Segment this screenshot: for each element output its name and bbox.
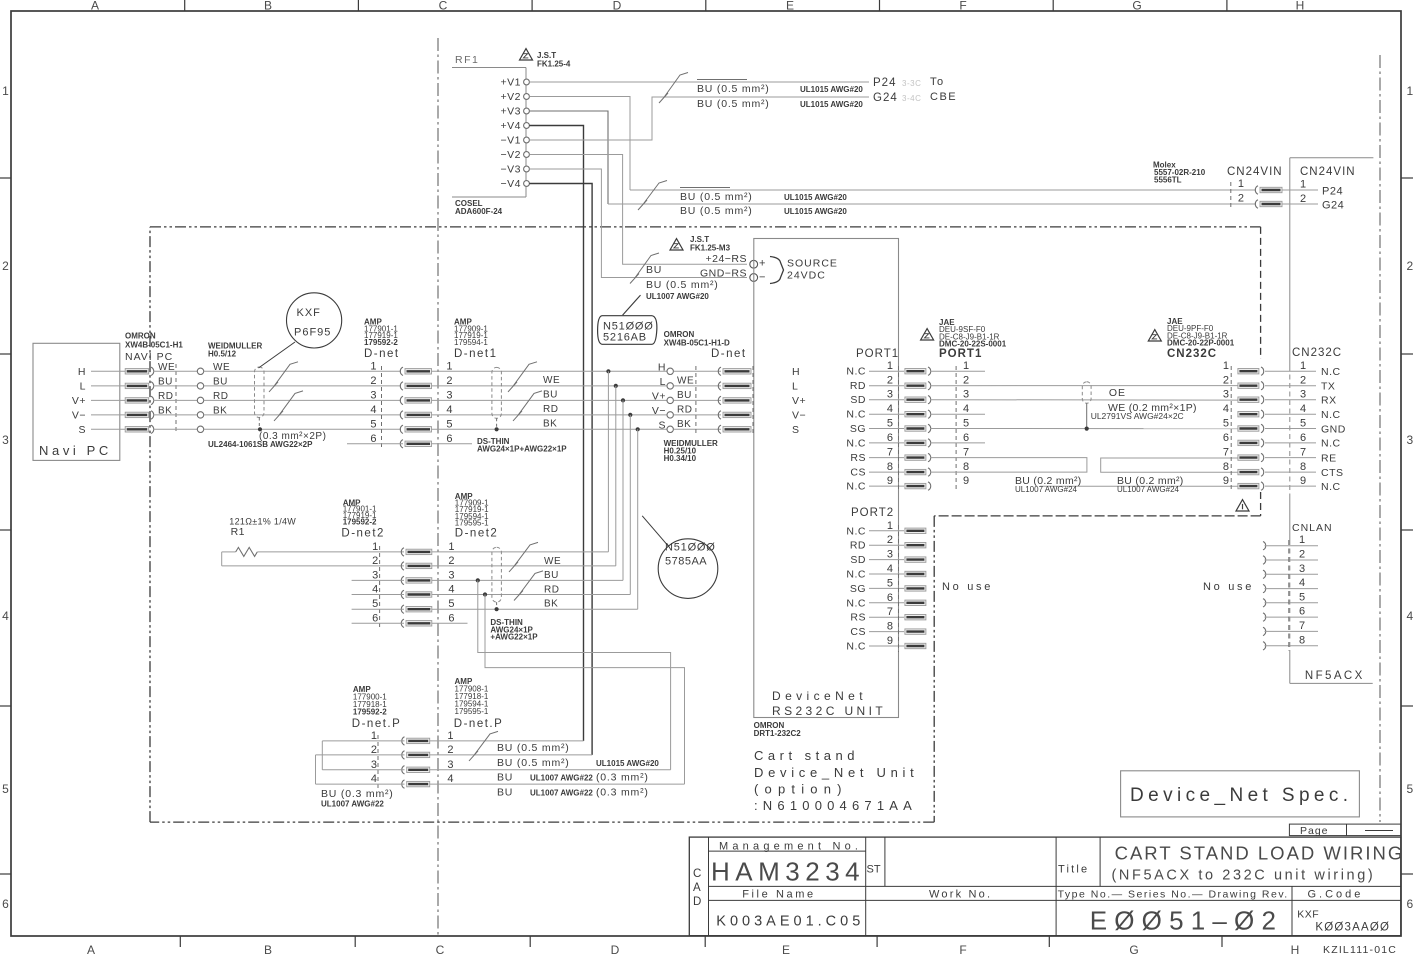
svg-text:5: 5 bbox=[1299, 591, 1305, 603]
CN24VIN pin 1 contact bbox=[1255, 186, 1282, 194]
svg-text:3: 3 bbox=[1407, 433, 1413, 447]
label Cart stand Device_Net Unit (option) N610004671AA bbox=[754, 748, 918, 813]
svg-text:No use: No use bbox=[942, 581, 993, 593]
svg-text:4: 4 bbox=[371, 773, 377, 785]
svg-text:3: 3 bbox=[372, 569, 378, 581]
jumper RS-CS (PORT1 side) bbox=[930, 458, 1087, 473]
svg-text:1: 1 bbox=[446, 360, 452, 372]
jumper D-net.P pin2-pin4 bbox=[316, 755, 405, 784]
svg-text:SD: SD bbox=[850, 554, 866, 566]
svg-text:3: 3 bbox=[1223, 389, 1229, 401]
svg-text:CS: CS bbox=[850, 467, 866, 479]
svg-text:3: 3 bbox=[447, 759, 453, 771]
svg-text:CBE: CBE bbox=[930, 91, 957, 103]
svg-text:N.C: N.C bbox=[846, 437, 866, 449]
svg-text:RF1: RF1 bbox=[455, 54, 479, 66]
svg-text:1: 1 bbox=[1238, 178, 1244, 190]
svg-text:R1: R1 bbox=[231, 526, 245, 538]
svg-text:3: 3 bbox=[370, 389, 376, 401]
svg-text:D-net2: D-net2 bbox=[455, 528, 499, 540]
svg-text:6: 6 bbox=[370, 433, 376, 445]
svg-text:D: D bbox=[613, 0, 622, 13]
svg-text:N.C: N.C bbox=[846, 366, 866, 378]
svg-text:UL1007 AWG#22: UL1007 AWG#22 bbox=[530, 774, 593, 783]
svg-text:BU: BU bbox=[497, 787, 513, 799]
svg-text:V+: V+ bbox=[652, 390, 666, 402]
svg-text:8: 8 bbox=[1223, 461, 1229, 473]
svg-text:4: 4 bbox=[372, 584, 378, 596]
svg-text:SD: SD bbox=[850, 394, 866, 406]
svg-text:KXF: KXF bbox=[1297, 909, 1319, 921]
node P24 to CBE bbox=[873, 76, 945, 89]
svg-text:179592-2: 179592-2 bbox=[353, 708, 387, 717]
svg-text:1: 1 bbox=[963, 360, 969, 372]
svg-text:1: 1 bbox=[448, 541, 454, 553]
connector D-net2 (AMP 177901-1/177919-1/179592-2) bbox=[341, 498, 431, 629]
svg-text:H0.34/10: H0.34/10 bbox=[664, 454, 697, 463]
svg-text:+: + bbox=[759, 258, 765, 270]
svg-text:2: 2 bbox=[2, 259, 9, 273]
connector CN24VIN (Molex) bbox=[1153, 161, 1283, 211]
svg-text:SG: SG bbox=[850, 583, 866, 595]
svg-text:2: 2 bbox=[447, 744, 453, 756]
svg-text:KØØ3AAØØ: KØØ3AAØØ bbox=[1315, 922, 1390, 934]
label DS-THIN AWG24x1P+AWG22x1P bbox=[477, 437, 567, 454]
wire +V4 down to D-net.P pin1 bbox=[529, 126, 583, 741]
svg-text:H0.5/12: H0.5/12 bbox=[208, 350, 237, 359]
svg-text:HAM3234: HAM3234 bbox=[711, 857, 865, 887]
svg-text:5: 5 bbox=[887, 418, 893, 430]
svg-text:(0.3 mm²): (0.3 mm²) bbox=[596, 772, 649, 784]
svg-text:4: 4 bbox=[2, 609, 9, 623]
warning triangle JAE DEU-9SF-F0 PORT1 bbox=[921, 318, 1007, 360]
svg-text:V+: V+ bbox=[792, 395, 806, 407]
warning triangle (232C cable) bbox=[1236, 500, 1249, 511]
svg-text:CN232C: CN232C bbox=[1167, 348, 1217, 360]
label BU (0.5mm2) UL1015 AWG#20 pin2 bbox=[497, 757, 659, 769]
svg-text:RD: RD bbox=[677, 404, 692, 415]
svg-text:3: 3 bbox=[887, 549, 893, 561]
svg-text:6: 6 bbox=[1407, 897, 1413, 911]
svg-text:+24−RS: +24−RS bbox=[705, 253, 747, 265]
wire +V2 down to CN24VIN P24 bbox=[529, 97, 630, 191]
svg-text:+V4: +V4 bbox=[501, 120, 521, 132]
label N51000 5216AB bbox=[598, 295, 657, 344]
svg-text:4: 4 bbox=[1407, 609, 1413, 623]
label WE (0.2mm2x1P) UL2791VS AWG#24x2C bbox=[1091, 402, 1197, 421]
svg-text:D-net2: D-net2 bbox=[341, 528, 385, 540]
svg-text:5: 5 bbox=[448, 598, 454, 610]
svg-text:D-net.P: D-net.P bbox=[352, 718, 402, 730]
svg-text:BU (0.5 mm²): BU (0.5 mm²) bbox=[697, 83, 770, 95]
svg-text:N.C: N.C bbox=[1321, 366, 1341, 378]
svg-text:3: 3 bbox=[448, 569, 454, 581]
svg-text:UL1007 AWG#22: UL1007 AWG#22 bbox=[530, 789, 593, 798]
svg-text:ADA600F-24: ADA600F-24 bbox=[455, 207, 503, 216]
svg-text:L: L bbox=[80, 381, 86, 393]
svg-text:4: 4 bbox=[370, 404, 376, 416]
svg-text:5: 5 bbox=[2, 782, 9, 796]
svg-text:5: 5 bbox=[1407, 782, 1413, 796]
svg-text:PORT1: PORT1 bbox=[939, 348, 982, 360]
svg-text:2: 2 bbox=[887, 375, 893, 387]
wire CN232C pin9 stub bbox=[1040, 485, 1238, 487]
svg-text:N.C: N.C bbox=[846, 525, 866, 537]
svg-text:SOURCE: SOURCE bbox=[787, 258, 838, 270]
svg-text:−V4: −V4 bbox=[501, 178, 521, 190]
svg-text:−V2: −V2 bbox=[501, 149, 521, 161]
title block Page cell bbox=[1289, 824, 1401, 837]
svg-text:CART STAND LOAD WIRING: CART STAND LOAD WIRING bbox=[1115, 843, 1405, 864]
connector PORT1 (unit side) bbox=[846, 348, 930, 493]
svg-text:KZIL111-01C: KZIL111-01C bbox=[1323, 944, 1397, 956]
svg-text:179594-1: 179594-1 bbox=[454, 338, 488, 347]
cable sheath DS-THIN (top) bbox=[492, 367, 502, 431]
svg-text:BU: BU bbox=[646, 264, 662, 276]
svg-text:7: 7 bbox=[1300, 447, 1306, 459]
svg-text:6: 6 bbox=[448, 612, 454, 624]
svg-text:2: 2 bbox=[371, 744, 377, 756]
svg-text:N.C: N.C bbox=[1321, 438, 1341, 450]
wire CN24VIN pin2 feed bbox=[608, 203, 1256, 205]
svg-text:FK1.25-M3: FK1.25-M3 bbox=[690, 244, 731, 253]
svg-text:B: B bbox=[264, 943, 272, 957]
svg-text:H: H bbox=[78, 366, 86, 378]
svg-text:UL1015 AWG#20: UL1015 AWG#20 bbox=[596, 759, 659, 768]
svg-text:DRT1-232C2: DRT1-232C2 bbox=[754, 729, 802, 738]
svg-text:ST: ST bbox=[867, 864, 881, 876]
svg-text:1: 1 bbox=[887, 360, 893, 372]
connector D-net (AMP 177901-1/177919-1/179592-2) bbox=[364, 318, 432, 450]
label BU (0.5mm2) UL1015 AWG#20 (P24) bbox=[697, 80, 863, 96]
svg-text:3: 3 bbox=[1300, 389, 1306, 401]
svg-text:7: 7 bbox=[1223, 447, 1229, 459]
svg-text:SG: SG bbox=[850, 423, 866, 435]
svg-text:5216AB: 5216AB bbox=[603, 332, 647, 344]
wires WEIDMULLER to D-net bbox=[204, 371, 401, 429]
label BU (0.2mm2) UL1007 AWG#24 (left) bbox=[1015, 475, 1082, 494]
label CAD bbox=[693, 868, 701, 908]
column C dash-dot line bbox=[437, 38, 439, 936]
svg-text:Cart stand: Cart stand bbox=[754, 748, 859, 763]
connector PORT2 bbox=[846, 507, 925, 653]
svg-text:BU (0.5 mm²): BU (0.5 mm²) bbox=[680, 205, 753, 217]
svg-text:2: 2 bbox=[963, 375, 969, 387]
svg-text:4: 4 bbox=[887, 563, 893, 575]
svg-text:(NF5ACX to 232C unit wiring): (NF5ACX to 232C unit wiring) bbox=[1112, 868, 1376, 884]
value KXF K003AA00 bbox=[1297, 909, 1390, 934]
label BU (0.5mm2) UL1015 AWG#20 (feed2) bbox=[680, 205, 847, 217]
svg-text:N.C: N.C bbox=[846, 597, 866, 609]
svg-text:G24: G24 bbox=[873, 92, 898, 104]
svg-text:D-net: D-net bbox=[364, 348, 400, 360]
label BU (0.2mm2) UL1007 AWG#24 (right) bbox=[1117, 475, 1184, 494]
cable mark on CN24VIN feed wires bbox=[638, 181, 667, 211]
svg-text:G: G bbox=[1129, 943, 1138, 957]
svg-text:File Name: File Name bbox=[742, 889, 816, 901]
svg-text:6: 6 bbox=[2, 897, 9, 911]
svg-text:CS: CS bbox=[850, 626, 866, 638]
node G24 to CBE bbox=[873, 91, 957, 104]
svg-text:5: 5 bbox=[370, 418, 376, 430]
wire -V4 down to D-net.P pin2 bbox=[529, 184, 592, 755]
svg-text:2: 2 bbox=[1300, 193, 1306, 205]
svg-text:BU (0.5 mm²): BU (0.5 mm²) bbox=[680, 191, 753, 203]
svg-text:2: 2 bbox=[887, 534, 893, 546]
box Device_Net Spec. bbox=[1121, 771, 1360, 817]
wire colour labels WE BU RD BK (D-net cable) bbox=[543, 375, 560, 430]
svg-text:9: 9 bbox=[963, 475, 969, 487]
svg-text:N.C: N.C bbox=[846, 481, 866, 493]
svg-text:6: 6 bbox=[446, 433, 452, 445]
svg-text:GND−RS: GND−RS bbox=[700, 268, 747, 280]
twisted pair sheath OE/WE bbox=[1082, 382, 1091, 431]
svg-text:D-net1: D-net1 bbox=[454, 348, 498, 360]
svg-text:Type No.— Series No.— Drawing: Type No.— Series No.— Drawing Rev. bbox=[1058, 889, 1289, 901]
svg-text:4: 4 bbox=[1223, 403, 1229, 415]
svg-text:UL1015 AWG#20: UL1015 AWG#20 bbox=[784, 193, 847, 202]
svg-text:BK: BK bbox=[543, 418, 557, 429]
svg-text:+V3: +V3 bbox=[501, 106, 521, 118]
svg-text:H: H bbox=[658, 361, 666, 373]
svg-text:XW4B-05C1-H1-D: XW4B-05C1-H1-D bbox=[664, 339, 730, 348]
svg-text:To: To bbox=[930, 76, 945, 88]
svg-text:2: 2 bbox=[372, 555, 378, 567]
svg-text:2: 2 bbox=[370, 375, 376, 387]
tap D-net2 pin3 to D-net.P pin3 bbox=[476, 578, 671, 769]
svg-text:N.C: N.C bbox=[846, 569, 866, 581]
connector D-net.P (AMP 177900-1/177918-1/179592-2) bbox=[352, 685, 430, 790]
svg-text:2: 2 bbox=[1300, 375, 1306, 387]
svg-text:N.C: N.C bbox=[1321, 481, 1341, 493]
svg-text:V−: V− bbox=[72, 410, 86, 422]
svg-text:4: 4 bbox=[1300, 403, 1306, 415]
svg-text:5: 5 bbox=[963, 418, 969, 430]
cable mark on source wires bbox=[630, 253, 659, 284]
svg-text:2: 2 bbox=[1223, 375, 1229, 387]
svg-text:2: 2 bbox=[446, 375, 452, 387]
wire -V2 down to +24-RS bbox=[529, 155, 747, 265]
cable mark (D-net.P cable) bbox=[469, 731, 498, 761]
terminal +24-RS bbox=[705, 253, 765, 270]
label BU UL1007 AWG#22 (0.3mm2) pin3 bbox=[497, 772, 649, 784]
resistor R1 121ohm bbox=[222, 517, 404, 566]
svg-text:1: 1 bbox=[372, 541, 378, 553]
svg-text:N.C: N.C bbox=[846, 409, 866, 421]
svg-text:PORT1: PORT1 bbox=[856, 348, 899, 360]
wire RD to TX bbox=[930, 385, 1238, 387]
svg-text:A: A bbox=[91, 0, 99, 13]
svg-text:8: 8 bbox=[1300, 461, 1306, 473]
svg-text:UL2464-1061SB AWG22×2P: UL2464-1061SB AWG22×2P bbox=[208, 440, 313, 449]
svg-text:F: F bbox=[959, 943, 966, 957]
svg-text:BU: BU bbox=[497, 772, 513, 784]
svg-text:3: 3 bbox=[371, 759, 377, 771]
svg-text:1: 1 bbox=[1407, 84, 1413, 98]
svg-text:C: C bbox=[693, 868, 701, 880]
svg-text:RD: RD bbox=[850, 540, 866, 552]
warning triangle JAE DEU-9PF-F0 CN232C bbox=[1148, 317, 1234, 360]
svg-text:S: S bbox=[78, 424, 86, 436]
svg-text:BU (0.5 mm²): BU (0.5 mm²) bbox=[497, 757, 570, 769]
svg-text:Device_Net Spec.: Device_Net Spec. bbox=[1130, 785, 1352, 806]
label BU / BU (0.5mm2) UL1007 AWG#20 bbox=[646, 264, 719, 301]
svg-text:−V1: −V1 bbox=[501, 135, 521, 147]
title CART STAND LOAD WIRING bbox=[1112, 843, 1405, 884]
SOURCE 24VDC brace and label bbox=[770, 257, 838, 284]
svg-text:Device_Net Unit: Device_Net Unit bbox=[754, 765, 918, 780]
svg-text:2: 2 bbox=[448, 555, 454, 567]
svg-text:NF5ACX: NF5ACX bbox=[1305, 670, 1365, 682]
svg-text:1: 1 bbox=[370, 360, 376, 372]
svg-text:(0.3 mm²): (0.3 mm²) bbox=[596, 787, 649, 799]
svg-text:L: L bbox=[792, 381, 798, 393]
connector CN232C bbox=[1223, 360, 1264, 492]
terminal GND-RS bbox=[700, 268, 766, 284]
svg-text:DMC-20-22P-0001: DMC-20-22P-0001 bbox=[1167, 338, 1235, 347]
svg-text:P24: P24 bbox=[873, 77, 896, 89]
svg-text:4: 4 bbox=[446, 404, 452, 416]
wire PORT1 pin4 stub bbox=[930, 413, 985, 415]
svg-text:RS: RS bbox=[850, 452, 866, 464]
svg-text:3: 3 bbox=[887, 389, 893, 401]
svg-text:F: F bbox=[959, 0, 966, 13]
svg-text:H: H bbox=[1291, 943, 1300, 957]
svg-text:RX: RX bbox=[1321, 395, 1337, 407]
svg-text:6: 6 bbox=[1300, 432, 1306, 444]
svg-text:4: 4 bbox=[887, 403, 893, 415]
svg-text:L: L bbox=[660, 376, 666, 388]
svg-text:G.Code: G.Code bbox=[1308, 889, 1364, 901]
svg-text:6: 6 bbox=[1299, 606, 1305, 618]
svg-text:1: 1 bbox=[887, 520, 893, 532]
svg-text:CN232C: CN232C bbox=[1292, 347, 1342, 359]
svg-text:UL2791VS AWG#24×2C: UL2791VS AWG#24×2C bbox=[1091, 411, 1184, 421]
svg-text:4: 4 bbox=[448, 584, 454, 596]
svg-text:RD: RD bbox=[850, 380, 866, 392]
svg-text:OMRON: OMRON bbox=[125, 332, 156, 341]
svg-text:6: 6 bbox=[1223, 432, 1229, 444]
svg-text:179595-1: 179595-1 bbox=[455, 519, 489, 528]
svg-text:D-net: D-net bbox=[711, 348, 747, 360]
svg-text:UL1007 AWG#22: UL1007 AWG#22 bbox=[321, 800, 384, 809]
svg-text:BU (0.5 mm²): BU (0.5 mm²) bbox=[697, 98, 770, 110]
svg-text:3-3C: 3-3C bbox=[902, 79, 921, 88]
svg-text:Navi PC: Navi PC bbox=[39, 443, 112, 458]
cable marks (navi cable) bbox=[269, 362, 303, 421]
svg-text:P6F95: P6F95 bbox=[294, 327, 331, 339]
svg-text:121Ω±1% 1/4W: 121Ω±1% 1/4W bbox=[229, 517, 296, 527]
svg-text:8: 8 bbox=[963, 461, 969, 473]
svg-text:BU (0.3 mm²): BU (0.3 mm²) bbox=[321, 788, 394, 800]
wire PORT1 pin1 stub bbox=[930, 370, 985, 372]
svg-text:5556TL: 5556TL bbox=[1154, 176, 1182, 185]
svg-text:BU: BU bbox=[544, 570, 559, 581]
connector D-net2 cable side (AMP 177909-1/177919-1/179594-1/179595-1) bbox=[448, 492, 498, 624]
connector D-net.P cable side (AMP 177908-1/177918-1/179594-1/179595-1) bbox=[447, 677, 503, 785]
svg-text:Work No.: Work No. bbox=[929, 889, 992, 901]
svg-text:9: 9 bbox=[887, 635, 893, 647]
svg-text:4: 4 bbox=[1299, 577, 1305, 589]
svg-text:E: E bbox=[786, 0, 794, 13]
wire +V1 to P24 bbox=[529, 81, 869, 83]
svg-text:1: 1 bbox=[371, 730, 377, 742]
label DS-THIN AWG24x1P +AWG22x1P bbox=[490, 618, 538, 642]
terminal block WEIDMULLER H0.5/12 bbox=[197, 342, 262, 433]
svg-text:E: E bbox=[782, 943, 790, 957]
svg-text:Title: Title bbox=[1058, 864, 1089, 876]
svg-text:179595-1: 179595-1 bbox=[455, 707, 489, 716]
svg-text:179592-2: 179592-2 bbox=[343, 518, 377, 527]
svg-text:5: 5 bbox=[1223, 418, 1229, 430]
wires D-net2 cable side bbox=[432, 552, 638, 623]
svg-text:5: 5 bbox=[446, 418, 452, 430]
svg-text:H: H bbox=[792, 366, 800, 378]
svg-text:6: 6 bbox=[372, 612, 378, 624]
svg-text:XW4B-05C1-H1: XW4B-05C1-H1 bbox=[125, 341, 183, 350]
Navi PC pin labels H L V+ V- S bbox=[72, 366, 125, 436]
svg-text:V−: V− bbox=[652, 405, 666, 417]
svg-text:DeviceNet: DeviceNet bbox=[772, 689, 867, 703]
svg-text:1: 1 bbox=[1300, 179, 1306, 191]
svg-text:7: 7 bbox=[887, 606, 893, 618]
svg-text:8: 8 bbox=[1299, 634, 1305, 646]
svg-text:BK: BK bbox=[544, 599, 558, 610]
svg-text:G: G bbox=[1132, 0, 1141, 13]
PORT1 cable-side pin numbers bbox=[963, 360, 969, 487]
warning triangle J.S.T FK1.25-4 bbox=[520, 49, 571, 69]
svg-text:C: C bbox=[439, 0, 448, 13]
svg-text:AWG24×1P+AWG22×1P: AWG24×1P+AWG22×1P bbox=[477, 445, 567, 454]
svg-text:N.C: N.C bbox=[1321, 409, 1341, 421]
wire CN24VIN pin1 feed bbox=[630, 189, 1256, 191]
wires D-net1 to OMRON D-net bbox=[432, 371, 667, 444]
wire D-net pin6 stub bbox=[347, 443, 403, 445]
wire -V3 down to GND-RS bbox=[529, 169, 747, 278]
svg-text:6: 6 bbox=[887, 432, 893, 444]
svg-text:UL1015 AWG#20: UL1015 AWG#20 bbox=[800, 85, 863, 94]
label OMRON DRT1-232C2 bbox=[754, 721, 802, 738]
svg-text:BU (0.5 mm²): BU (0.5 mm²) bbox=[497, 742, 570, 754]
svg-text:4: 4 bbox=[963, 403, 969, 415]
svg-text:WE: WE bbox=[543, 375, 560, 386]
svg-text:+V2: +V2 bbox=[501, 91, 521, 103]
tap D-net2 pin4 to D-net.P pin4 bbox=[483, 592, 685, 784]
svg-text:Management No.: Management No. bbox=[719, 841, 862, 853]
svg-text:UL1007 AWG#24: UL1007 AWG#24 bbox=[1117, 485, 1180, 494]
svg-text:UL1007 AWG#24: UL1007 AWG#24 bbox=[1015, 485, 1078, 494]
svg-text:1: 1 bbox=[2, 84, 9, 98]
svg-text:S: S bbox=[792, 424, 800, 436]
taps from D-net rows down to D-net2 bbox=[606, 369, 640, 609]
svg-text:OE: OE bbox=[1109, 387, 1126, 399]
connector CNLAN bbox=[1263, 522, 1333, 651]
label BU (0.5mm2) UL1015 AWG#20 (feed1) bbox=[680, 188, 847, 204]
svg-text:BK: BK bbox=[677, 419, 691, 430]
jumper RE-CTS (CN232C side) bbox=[1101, 458, 1238, 472]
svg-text:CN24VIN: CN24VIN bbox=[1227, 166, 1283, 178]
svg-text:8: 8 bbox=[887, 461, 893, 473]
svg-text:+AWG22×1P: +AWG22×1P bbox=[490, 633, 538, 642]
svg-text:GND: GND bbox=[1321, 423, 1346, 435]
svg-text:1: 1 bbox=[1299, 534, 1305, 546]
svg-text:CNLAN: CNLAN bbox=[1292, 522, 1333, 534]
CN232C right-side labels bbox=[1265, 347, 1346, 493]
PORT1 mating dashed line bbox=[955, 366, 957, 492]
svg-text:WE: WE bbox=[544, 556, 561, 567]
title block bbox=[689, 837, 1401, 936]
connector NAVIPC (OMRON XW4B-05C1-H1) bbox=[125, 332, 183, 434]
